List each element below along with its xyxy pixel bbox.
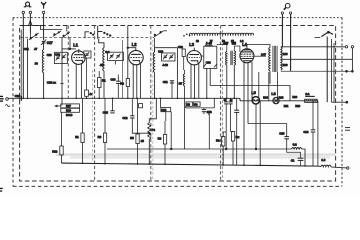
svg-text:1.2: 1.2 (321, 158, 325, 162)
trimmer C31 (169, 54, 173, 59)
shield partition x93 gray ghost (92, 70, 94, 162)
svg-text:R1: R1 (75, 135, 79, 139)
svg-text:R1: R1 (102, 79, 106, 83)
resistor R33 (182, 49, 185, 57)
wire speaker T2 down (290, 14, 292, 71)
lamp line (240, 100, 318, 102)
arrow tick (55, 105, 61, 107)
trimmer C17 (41, 39, 46, 45)
wire x21 (20, 30, 22, 99)
svg-text:C16: C16 (303, 130, 308, 134)
IF box trimmer arrows (203, 64, 206, 67)
wire T1 primary top (217, 45, 227, 52)
svg-text:R5: R5 (130, 136, 134, 140)
wire OT sec top line (281, 46, 345, 48)
wire terminal A2 down (29, 14, 31, 34)
svg-text:247: 247 (261, 52, 266, 56)
resistor R5 (136, 134, 139, 144)
cap C15 (284, 124, 300, 159)
wire long x127.8 (127, 26, 129, 79)
coil secondary stage4 (183, 74, 184, 86)
wire x313 vertical (312, 101, 314, 130)
resistor 21 horizontal (305, 96, 318, 102)
shield partition x95 (94, 26, 96, 182)
svg-text:130: 130 (283, 63, 288, 67)
resistor boxes R17 R10 (61, 104, 80, 108)
svg-text:J-10: J-10 (162, 63, 168, 67)
svg-text:C14: C14 (161, 108, 166, 112)
band switch S2c (85, 32, 94, 38)
terminal bottom right (347, 167, 349, 169)
T1 right winding (234, 51, 235, 65)
junction tick x62 (60, 82, 63, 84)
stage2 coil (103, 48, 104, 71)
wire boxes down (61, 112, 63, 146)
shield feedthrough wire top-left (20, 20, 43, 25)
coil 1.2 (321, 165, 331, 167)
svg-text:R11: R11 (284, 104, 289, 108)
trimmer box L1 (84, 51, 91, 58)
cap C22 (110, 98, 114, 113)
band switch S1 (29, 33, 39, 40)
wire junction up (69, 38, 71, 49)
svg-text:R9: R9 (194, 102, 198, 106)
wire stage A left drop (27, 39, 29, 99)
wire C17 to coil (43, 43, 45, 50)
cap bottom right C2 (298, 158, 304, 166)
wire J24 down (85, 96, 87, 98)
svg-text:C15: C15 (279, 131, 284, 135)
wire trimmerbox2 drop (115, 61, 117, 65)
junction y149 dots (170, 148, 172, 150)
wire R1 upper (98, 88, 100, 99)
wire S2 drop x62 (61, 37, 63, 103)
wire OT sec mid line (281, 58, 353, 60)
antenna symbol (41, 2, 46, 9)
resistor R12 (60, 146, 63, 155)
svg-text:R2: R2 (120, 82, 124, 86)
IF transformer T1 left winding (226, 52, 227, 66)
svg-text:85: 85 (141, 139, 145, 143)
junction dot (69, 48, 71, 50)
svg-text:3/5: 3/5 (232, 42, 237, 46)
equals mark (345, 128, 350, 131)
IF box top winding (205, 44, 213, 47)
antenna coil LA (42, 50, 43, 73)
wire box stub up (61, 49, 63, 52)
wire speaker T1 down (281, 14, 283, 47)
band switch S2a (53, 31, 61, 37)
band switch S2b (62, 32, 70, 38)
wire S3 drop (99, 39, 104, 48)
wire cap right (332, 101, 347, 103)
cap C11 (170, 81, 174, 99)
trimmer box stage3 (162, 53, 175, 61)
main bus (8, 97, 240, 99)
trimmer C20 (61, 54, 65, 59)
svg-text:L2: L2 (132, 42, 137, 47)
stage3 coil (153, 52, 154, 72)
svg-text:3.2: 3.2 (293, 143, 297, 147)
wire x277.5 drop (277, 72, 279, 101)
terminal A3 (42, 11, 44, 13)
wire OT sec bottom line (281, 70, 353, 72)
svg-text:5W: 5W (223, 42, 229, 46)
resistor R1 upper (98, 78, 102, 88)
svg-text:210: 210 (283, 52, 288, 56)
band switch S4 (153, 31, 167, 38)
lamp L6 (273, 98, 279, 104)
wire R8R9 bottom loop (185, 106, 187, 108)
wire coil3 top (155, 48, 178, 52)
wire x62 to boxes (61, 104, 63, 106)
shield line y37.6 (21, 37, 150, 39)
output transformer secondary (281, 47, 282, 70)
svg-text:J7: J7 (34, 47, 38, 51)
inner dashed enclosure (20, 26, 336, 182)
wire R12 down to bus corner (61, 155, 63, 163)
band switch S3 (98, 26, 111, 39)
bottom bus (62, 163, 318, 166)
wire coil32 to bus (302, 149, 305, 166)
svg-text:R8: R8 (187, 102, 191, 106)
svg-text:J-40: J-40 (206, 42, 212, 46)
junction (127, 47, 129, 49)
bus step (239, 98, 241, 101)
svg-text:R18: R18 (279, 95, 284, 99)
trimmer C19 (56, 55, 60, 60)
junction dot (149, 132, 151, 134)
resistor R3 (103, 133, 106, 143)
wire coil3 down (154, 72, 156, 98)
left terminal (6, 98, 9, 101)
tube L1 (72, 49, 86, 98)
lamp L5 (252, 97, 259, 104)
terminal out1 (345, 46, 347, 48)
svg-text:C19: C19 (47, 53, 52, 57)
resistor R6 (163, 135, 166, 145)
vertical x236.7 (236, 98, 238, 110)
output transformer primary (269, 48, 270, 71)
shield partition x152 ghost (152, 40, 154, 181)
wire IF box down (206, 68, 208, 98)
svg-text:R10: R10 (66, 109, 71, 113)
svg-text:R17: R17 (66, 104, 71, 108)
zigzag resistor R5z (148, 98, 157, 164)
wire terminal A3 down (43, 14, 45, 41)
wire y149 (107, 148, 292, 150)
trimmer box CA (55, 52, 68, 63)
AC symbol (5, 105, 9, 107)
caps pair right of partition (224, 98, 228, 149)
speaker terminal T1 (281, 12, 283, 14)
T1 core (230, 51, 232, 65)
wire x122.6 (122, 40, 124, 98)
svg-text:C32: C32 (178, 45, 183, 49)
svg-text:Rx: Rx (236, 135, 240, 139)
svg-text:R6: R6 (158, 137, 162, 141)
svg-text:R14: R14 (263, 95, 268, 99)
svg-text:L6: L6 (271, 92, 275, 96)
trimmer C25 (116, 54, 120, 59)
wire long x177.4 (176, 48, 178, 99)
heater coiled lead (189, 33, 253, 35)
wire T1 sec top to L4 (234, 46, 240, 52)
wire lamp vertical x260 (259, 101, 261, 166)
svg-text:J6: J6 (35, 62, 39, 66)
svg-text:R19: R19 (295, 104, 300, 108)
wire S2 top stub (66, 26, 68, 32)
wire R2 down (127, 87, 129, 99)
wire x160 drop (159, 98, 161, 107)
resistor R2 on x127.8 (126, 79, 129, 87)
tube L3 (187, 51, 201, 99)
svg-text:Jx: Jx (89, 92, 92, 96)
wire terminal A1 down (22, 14, 24, 99)
junction dots bottom (82, 162, 306, 166)
box C14 (161, 108, 171, 112)
boxes R8 R9 (186, 102, 193, 106)
cap C16 (311, 130, 316, 166)
wire L4 plate to OT (247, 45, 270, 48)
shield partition x220 double (220, 26, 222, 182)
svg-text:C18 xx: C18 xx (47, 81, 57, 85)
cap C10 (116, 75, 121, 99)
tube L2 (129, 50, 143, 98)
gray scan band horizontal (56, 153, 335, 155)
tube L4 (240, 45, 266, 166)
outer dashed enclosure (13, 17, 342, 19)
wire T1 primary down (226, 65, 228, 98)
feedthrough cap (19, 96, 21, 101)
cap C12 (130, 98, 149, 133)
trimmer C30 (163, 54, 167, 59)
B+ feed wire (210, 86, 290, 101)
wire x165.8 drop (165, 112, 167, 121)
wire y125 (248, 123, 287, 125)
svg-text:C11: C11 (163, 80, 168, 84)
wire x171.2 drop (170, 112, 172, 149)
wire coil12 to terminal (331, 167, 347, 168)
bottom right output line (318, 165, 321, 167)
band switch S5 contact dots (183, 33, 190, 36)
wire x318 vertical (317, 101, 319, 166)
resistor R14 (231, 132, 234, 142)
wire L3 top (193, 48, 195, 51)
wire out vertical (351, 48, 353, 71)
svg-text:R12: R12 (52, 150, 57, 154)
wire OT primary bottom (269, 71, 271, 84)
wire stage B grid (62, 48, 76, 50)
svg-text:C20: C20 (55, 52, 60, 56)
resistor R13 (222, 137, 225, 147)
svg-text:C26: C26 (206, 61, 211, 65)
svg-text:C17: C17 (47, 41, 53, 45)
output transformer core (273, 46, 277, 72)
junction dots out (346, 70, 348, 72)
resistor R1 (81, 133, 84, 143)
terminal A2 (29, 11, 31, 13)
band switch S6 (315, 31, 334, 37)
wire junction to tube L2 (128, 48, 136, 51)
coil 3.2 (292, 148, 302, 150)
component J24 (85, 90, 89, 96)
wire x268.8 drop (268, 72, 270, 101)
svg-text:13: 13 (196, 39, 199, 43)
svg-text:R3: R3 (98, 135, 102, 139)
scan mark left mid (0, 96, 4, 101)
IF transformer box (204, 46, 217, 68)
loop aerial symbol (24, 2, 32, 7)
svg-text:R20: R20 (292, 95, 297, 99)
wire S4 drop (154, 38, 156, 52)
svg-text:C12: C12 (122, 116, 127, 120)
wire coil bottom down (43, 73, 45, 99)
svg-text:C-M: C-M (103, 111, 109, 115)
svg-text:P.O.D: P.O.D (66, 113, 72, 117)
diode arrow tick (208, 111, 210, 115)
right verticals to cap line (326, 37, 328, 103)
svg-text:R7: R7 (179, 82, 183, 86)
svg-text:R2: R2 (216, 139, 220, 143)
wire lamp L5 down (255, 104, 257, 149)
svg-text:C10: C10 (110, 77, 115, 81)
wire T1 sec down (233, 65, 235, 98)
cap C13 (202, 108, 206, 114)
wire box drop (85, 58, 87, 90)
speaker terminal T2 (290, 12, 292, 14)
trimmer box stage2 (108, 52, 124, 60)
svg-text:C21: C21 (24, 47, 30, 51)
svg-text:2-1: 2-1 (305, 92, 309, 96)
wire IF box B+ (209, 68, 211, 85)
terminal out2 (351, 46, 353, 48)
svg-text:P4: P4 (152, 128, 156, 132)
shield partition x68 (67, 26, 69, 99)
junction dots bus (22, 97, 235, 99)
svg-text:L1: L1 (73, 42, 78, 47)
speaker symbol (284, 3, 290, 9)
shield partition x150 (150, 26, 152, 182)
trimmer C24 (109, 54, 113, 59)
svg-text:J16: J16 (100, 63, 105, 67)
small box R9u (139, 104, 143, 108)
svg-text:C1: C1 (291, 158, 295, 162)
junction dots y149 (225, 148, 227, 150)
wire stage2 coil down (103, 71, 105, 98)
terminal A1 (22, 11, 24, 13)
wire L3 to IF box (201, 55, 204, 57)
wire OT down x258.8 (258, 72, 260, 100)
trimmer C23 (85, 52, 89, 57)
svg-text:L5: L5 (251, 91, 255, 95)
svg-text:L3: L3 (189, 42, 194, 47)
scan mark left bottom (0, 188, 3, 191)
